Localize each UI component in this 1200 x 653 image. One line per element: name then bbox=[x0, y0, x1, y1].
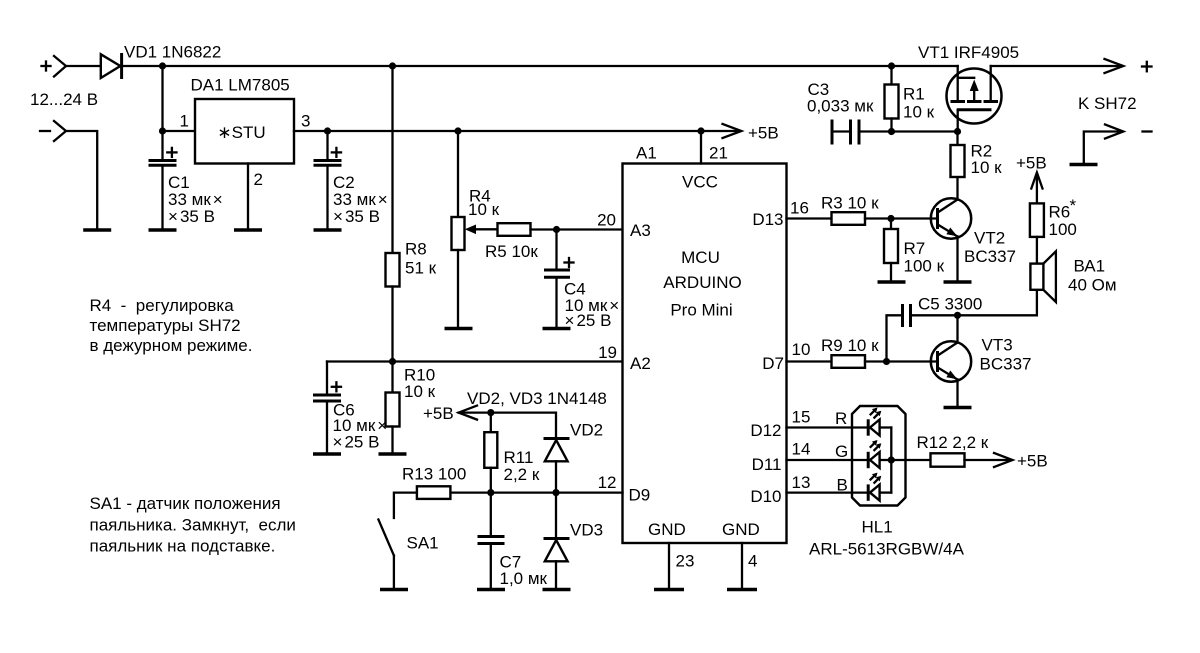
wire VCC pin 21 bbox=[700, 131, 702, 164]
wire D7 to R9 bbox=[787, 360, 832, 362]
label output plus bbox=[1142, 62, 1152, 72]
wire rail drop to regulator input bbox=[161, 66, 163, 131]
svg-text:51 к: 51 к bbox=[405, 259, 437, 278]
svg-text:VT2: VT2 bbox=[974, 229, 1005, 248]
resistor R10 bbox=[386, 362, 400, 453]
label C1 value bbox=[168, 173, 223, 226]
ground SA1 bbox=[380, 588, 408, 591]
svg-text:×25 В: ×25 В bbox=[333, 433, 380, 452]
LED module HL1 package bbox=[852, 406, 906, 506]
resistor R11 bbox=[484, 413, 497, 493]
node C2 branch bbox=[324, 127, 331, 134]
svg-text:D13: D13 bbox=[752, 210, 783, 229]
capacitor C7 bbox=[478, 493, 505, 588]
resistor R1 bbox=[885, 66, 899, 132]
node gate R2 junction bbox=[954, 128, 961, 135]
wire LED anode bus bbox=[890, 428, 892, 493]
svg-text:+5В: +5В bbox=[423, 404, 454, 423]
svg-text:10 к: 10 к bbox=[404, 382, 436, 401]
label R7 100 k bbox=[904, 239, 945, 276]
node C4 branch bbox=[553, 226, 560, 233]
node regulator input bbox=[159, 127, 166, 134]
svg-text:VD2, VD3 1N4148: VD2, VD3 1N4148 bbox=[467, 389, 607, 408]
svg-text:15: 15 bbox=[792, 408, 811, 427]
ground C4 bbox=[543, 327, 571, 330]
node VT3 collector junction bbox=[954, 312, 961, 319]
label C3 value bbox=[807, 80, 874, 116]
potentiometer R4 bbox=[452, 131, 465, 327]
ground R10 bbox=[379, 452, 407, 455]
wire +5V feed to VD2 bbox=[459, 413, 556, 437]
capacitor C6 bbox=[313, 362, 341, 453]
svg-text:паяльник на подставке.: паяльник на подставке. bbox=[90, 537, 276, 556]
wire D13 to R3 bbox=[787, 217, 832, 219]
svg-text:B: B bbox=[837, 476, 848, 495]
svg-text:19: 19 bbox=[598, 343, 617, 362]
label C4 value bbox=[564, 280, 619, 331]
svg-text:R1: R1 bbox=[903, 85, 925, 104]
svg-text:40 Ом: 40 Ом bbox=[1068, 276, 1117, 295]
resistor R2 bbox=[951, 132, 965, 178]
resistor R6 bbox=[1030, 203, 1044, 237]
output arrow minus bbox=[1105, 125, 1123, 139]
node R1 C3 junction bbox=[888, 128, 895, 135]
wire gate net bbox=[892, 130, 958, 132]
svg-text:D11: D11 bbox=[752, 455, 782, 474]
svg-text:ВА1: ВА1 bbox=[1074, 257, 1106, 276]
regulator DA1 box bbox=[195, 99, 294, 164]
svg-text:10 к: 10 к bbox=[903, 103, 935, 122]
svg-text:R8: R8 bbox=[405, 240, 427, 259]
wire D12 to LED R bbox=[787, 426, 871, 428]
label R4 10 k bbox=[468, 187, 500, 220]
ground MCU pin 23 bbox=[654, 588, 684, 591]
label C6 value bbox=[333, 401, 388, 452]
svg-text:10 к: 10 к bbox=[468, 200, 500, 219]
svg-text:1: 1 bbox=[180, 112, 189, 131]
svg-text:температуры SH72: температуры SH72 bbox=[90, 316, 241, 335]
svg-text:C5 3300: C5 3300 bbox=[918, 295, 982, 314]
node VD2 VD3 branch bbox=[552, 489, 559, 496]
wire GND pin 23 bbox=[668, 543, 670, 588]
diode VD1 bbox=[101, 53, 122, 79]
svg-text:×35 В: ×35 В bbox=[333, 207, 380, 226]
svg-text:4: 4 bbox=[748, 552, 757, 571]
wire R12 to +5V arrow bbox=[965, 459, 1011, 461]
ground C7 bbox=[477, 588, 505, 591]
wire DA1 pin 3 to +5V rail with arrow bbox=[294, 130, 737, 132]
wire node to DA1 pin 1 bbox=[163, 130, 196, 132]
label BA1 40 Om bbox=[1068, 257, 1117, 295]
+5V arrow left bbox=[459, 406, 477, 420]
wire GND pin 4 bbox=[741, 543, 743, 588]
speaker BA1 bbox=[1030, 251, 1056, 302]
wire A2 line bbox=[327, 360, 623, 362]
svg-text:R9 10 к: R9 10 к bbox=[821, 336, 879, 355]
capacitor C4 bbox=[544, 230, 574, 328]
capacitor C1 bbox=[149, 131, 177, 229]
svg-text:R3 10 к: R3 10 к bbox=[821, 194, 879, 213]
ground VT3 emitter bbox=[944, 406, 972, 409]
svg-text:10: 10 bbox=[792, 340, 811, 359]
node top rail / R1 branch bbox=[888, 62, 895, 69]
svg-text:0,033 мк: 0,033 мк bbox=[807, 97, 874, 116]
node MCU VCC branch bbox=[697, 127, 704, 134]
resistor R9 bbox=[832, 355, 866, 368]
label R11 2,2 k bbox=[504, 448, 540, 484]
node R11 C7 branch bbox=[487, 489, 494, 496]
capacitor C2 bbox=[314, 131, 342, 229]
wire minus input to ground bbox=[66, 131, 97, 229]
wire R5 to A3 pin bbox=[531, 228, 623, 230]
diode VD2 bbox=[544, 439, 570, 493]
wire R13 to SA1 bbox=[394, 493, 417, 518]
svg-text:*: * bbox=[1070, 196, 1077, 215]
svg-text:R4 - регулировка: R4 - регулировка bbox=[90, 296, 235, 315]
svg-text:D12: D12 bbox=[750, 421, 781, 440]
ground DA1 pin 2 bbox=[234, 228, 262, 231]
LED blue HL1.3 bbox=[868, 473, 891, 501]
wire D9 line bbox=[451, 491, 623, 493]
svg-text:MCU: MCU bbox=[681, 248, 720, 267]
svg-text:23: 23 bbox=[676, 552, 695, 571]
svg-text:G: G bbox=[835, 442, 848, 461]
resistor R12 bbox=[931, 453, 965, 466]
svg-text:R7: R7 bbox=[904, 239, 926, 258]
svg-text:A2: A2 bbox=[630, 354, 651, 373]
svg-text:ARL-5613RGBW/4A: ARL-5613RGBW/4A bbox=[809, 540, 965, 559]
output arrow plus bbox=[1105, 59, 1124, 73]
node R4 branch bbox=[454, 127, 461, 134]
wire output minus bbox=[1084, 132, 1121, 164]
svg-text:паяльника. Замкнут, если: паяльника. Замкнут, если bbox=[90, 516, 296, 535]
svg-text:A3: A3 bbox=[630, 221, 651, 240]
svg-text:R13 100: R13 100 bbox=[402, 465, 466, 484]
wire R6 to speaker bbox=[1036, 237, 1038, 264]
svg-text:HL1: HL1 bbox=[862, 518, 893, 537]
wire R3 to VT2 base bbox=[865, 217, 938, 219]
node R11 top bbox=[487, 409, 494, 416]
label output minus bbox=[1143, 130, 1152, 132]
svg-text:1,0 мк: 1,0 мк bbox=[500, 569, 548, 588]
ground MCU pin 4 bbox=[727, 588, 757, 591]
svg-text:21: 21 bbox=[709, 144, 728, 163]
svg-text:BC337: BC337 bbox=[964, 247, 1016, 266]
wiper arrow R4 bbox=[465, 225, 498, 235]
wire D10 to LED B bbox=[787, 491, 871, 493]
svg-text:2,2 к: 2,2 к bbox=[504, 465, 540, 484]
wire R9 to VT3 base bbox=[865, 360, 938, 362]
wire LED common to R12 bbox=[891, 459, 930, 461]
svg-text:DA1 LM7805: DA1 LM7805 bbox=[191, 76, 290, 95]
node LED common anode bbox=[888, 456, 895, 463]
node top rail / R8 branch bbox=[389, 62, 396, 69]
label C7 value bbox=[500, 553, 548, 589]
svg-text:K SH72: K SH72 bbox=[1078, 94, 1137, 113]
MCU U1 Arduino Pro Mini box bbox=[623, 164, 787, 544]
svg-text:в дежурном режиме.: в дежурном режиме. bbox=[90, 336, 253, 355]
svg-text:VCC: VCC bbox=[682, 173, 718, 192]
svg-text:VT3: VT3 bbox=[982, 336, 1013, 355]
ground minus input bbox=[83, 228, 111, 231]
resistor R8 bbox=[386, 66, 400, 362]
resistor R13 bbox=[417, 486, 451, 499]
svg-text:14: 14 bbox=[792, 440, 811, 459]
svg-text:VT1 IRF4905: VT1 IRF4905 bbox=[918, 43, 1019, 62]
transistor VT3 BC337 bbox=[931, 315, 971, 406]
ground VD3 bbox=[543, 588, 571, 591]
diode VD3 bbox=[544, 493, 570, 588]
transistor VT2 BC337 bbox=[931, 177, 971, 281]
svg-text:20: 20 bbox=[597, 211, 616, 230]
+5V arrow bbox=[723, 124, 742, 138]
ground R4 bbox=[445, 327, 473, 330]
svg-text:×35 В: ×35 В bbox=[168, 207, 215, 226]
wire rail VT1 drain to output bbox=[991, 65, 1121, 67]
svg-text:3: 3 bbox=[301, 112, 310, 131]
svg-text:10 к: 10 к bbox=[971, 158, 1003, 177]
ground C2 bbox=[314, 228, 342, 231]
ground C6 bbox=[313, 452, 341, 455]
svg-text:R: R bbox=[835, 409, 847, 428]
label VT3 BC337 bbox=[980, 336, 1032, 374]
svg-text:VD2: VD2 bbox=[570, 421, 603, 440]
svg-text:GND: GND bbox=[648, 520, 686, 539]
svg-text:SA1: SA1 bbox=[407, 534, 439, 553]
label C2 value bbox=[333, 173, 388, 226]
wire DA1 pin 2 to ground bbox=[247, 164, 249, 229]
svg-text:VD1 1N6822: VD1 1N6822 bbox=[124, 43, 221, 62]
svg-text:R6: R6 bbox=[1049, 203, 1071, 222]
node R8 R10 A2 bbox=[389, 358, 396, 365]
svg-text:∗STU: ∗STU bbox=[217, 123, 265, 142]
node R7 branch bbox=[887, 215, 894, 222]
capacitor C3 bbox=[832, 120, 892, 145]
transistor VT1 IRF4905 bbox=[947, 66, 1002, 132]
svg-text:+5В: +5В bbox=[748, 124, 779, 143]
wire D11 to LED G bbox=[787, 459, 871, 461]
+5V arrow right bbox=[994, 453, 1013, 467]
ground R7 bbox=[878, 280, 906, 283]
svg-text:2: 2 bbox=[254, 170, 263, 189]
svg-text:Pro Mini: Pro Mini bbox=[670, 301, 732, 320]
svg-text:13: 13 bbox=[792, 473, 811, 492]
svg-text:D10: D10 bbox=[750, 487, 781, 506]
node top rail / C1 branch bbox=[159, 62, 166, 69]
resistor R5 bbox=[498, 223, 531, 236]
svg-text:12...24 В: 12...24 В bbox=[30, 90, 98, 109]
LED red HL1.1 bbox=[868, 408, 891, 436]
resistor R7 bbox=[884, 219, 898, 281]
label R10 10 k bbox=[404, 366, 436, 402]
svg-text:16: 16 bbox=[790, 199, 809, 218]
resistor R3 bbox=[832, 212, 866, 225]
ground VT2 emitter bbox=[944, 280, 972, 283]
label R2 10 k bbox=[971, 142, 1003, 178]
wire plus input to VD1 bbox=[66, 65, 101, 67]
svg-text:100 к: 100 к bbox=[904, 257, 945, 276]
svg-text:12: 12 bbox=[598, 473, 617, 492]
ground output minus bbox=[1070, 163, 1098, 166]
svg-text:ARDUINO: ARDUINO bbox=[663, 273, 741, 292]
svg-text:R5 10к: R5 10к bbox=[485, 242, 538, 261]
svg-text:100: 100 bbox=[1049, 220, 1077, 239]
wire top rail VD1 to VT1 source bbox=[123, 65, 958, 67]
svg-text:A1: A1 bbox=[636, 144, 657, 163]
input terminal minus bbox=[40, 121, 66, 141]
capacitor C5 bbox=[887, 304, 958, 362]
svg-text:D7: D7 bbox=[762, 354, 784, 373]
label R1 10 k bbox=[903, 85, 935, 122]
switch SA1 bbox=[378, 520, 394, 589]
input terminal plus bbox=[42, 56, 67, 77]
label R8 51 k bbox=[405, 240, 437, 278]
svg-text:R12 2,2 к: R12 2,2 к bbox=[917, 433, 989, 452]
svg-text:×25 В: ×25 В bbox=[565, 311, 612, 330]
svg-text:+5В: +5В bbox=[1016, 154, 1047, 173]
svg-text:GND: GND bbox=[722, 520, 760, 539]
svg-text:VD3: VD3 bbox=[570, 521, 603, 540]
svg-text:BC337: BC337 bbox=[980, 355, 1032, 374]
ground C1 bbox=[149, 228, 177, 231]
wire C5 node to speaker bbox=[958, 290, 1037, 316]
svg-text:SA1 - датчик положения: SA1 - датчик положения bbox=[90, 494, 281, 513]
label VT2 BC337 bbox=[964, 229, 1016, 266]
LED green HL1.2 bbox=[868, 440, 891, 468]
node C5 branch bbox=[883, 358, 890, 365]
+5V arrow up R6 bbox=[1031, 173, 1042, 204]
label R6* 100 bbox=[1049, 196, 1077, 239]
svg-text:D9: D9 bbox=[629, 486, 651, 505]
svg-text:+5В: +5В bbox=[1017, 452, 1048, 471]
